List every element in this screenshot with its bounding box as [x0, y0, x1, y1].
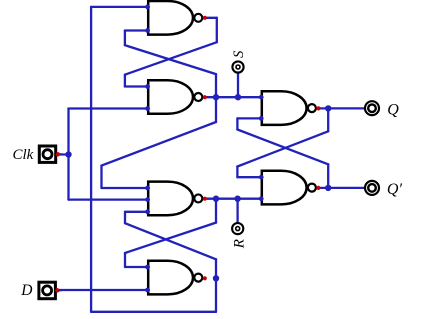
wire: into U4 upper input [125, 266, 148, 268]
wire: U2 output up [215, 74, 217, 97]
input pin dot 3 [145, 84, 150, 89]
input pin dot 4 [145, 106, 150, 111]
wire: into U6 upper input [237, 176, 261, 178]
wire: up to U5 lower input level [236, 118, 238, 129]
wire: S net horizontal U2 out to U5 input [207, 96, 262, 98]
NAND gate U3 [148, 182, 202, 216]
wire: Clk stub to junction [61, 153, 69, 155]
wire: up to U3 bottom input level [124, 212, 126, 223]
wire: into U3 top input [102, 187, 149, 189]
svg-text:Clk: Clk [13, 147, 34, 163]
wire: U1 output down [216, 18, 218, 42]
Clk pin stub (red) [60, 153, 62, 155]
junction Qbar node [325, 185, 331, 191]
wire: into U3 bottom input [125, 211, 148, 213]
wire: U4 output down [215, 278, 217, 312]
input pin dot 5 [145, 186, 150, 191]
input pin dot 1 [145, 5, 150, 10]
wire: Clk to gate U2 lower input [69, 107, 149, 109]
wire: U6 out diagonal to U5 [237, 130, 328, 165]
NAND gate U5 [262, 91, 316, 125]
D input terminal [39, 282, 56, 299]
NAND gate U6 [262, 171, 316, 205]
S terminal [232, 61, 243, 72]
wire: down to U6 upper input level [236, 167, 238, 178]
junction S terminal tap [235, 94, 241, 100]
junction Q node [325, 105, 331, 111]
input pin dot 10 [259, 95, 264, 100]
junction U4 output node [213, 275, 219, 281]
Q output terminal [365, 101, 379, 115]
D pin stub (red) [59, 289, 61, 291]
wire: U6 output to Qbar [320, 187, 365, 189]
svg-text:S: S [231, 50, 247, 58]
wire: U2 out down [215, 97, 217, 122]
svg-text:Q′: Q′ [387, 181, 403, 198]
wire: U4 output up [215, 259, 217, 278]
R terminal [232, 223, 243, 234]
output pin dot U1 (red) [203, 16, 207, 20]
wire: down to U3 top input level [100, 166, 102, 188]
input pin dot 11 [259, 116, 264, 121]
wire: into U1 lower input [125, 29, 148, 31]
wire: down to U2 upper input level [124, 75, 126, 87]
svg-text:Q: Q [387, 102, 399, 119]
wire: feedback left vertical U4 out to U1 input [90, 7, 92, 312]
wire: down to U4 upper input level [124, 253, 126, 267]
wire: S terminal drop [237, 73, 239, 98]
wire: U1 out diagonal to U2 [125, 42, 217, 74]
wire: feedback into U1 upper input [91, 6, 148, 8]
input pin dot 8 [145, 265, 150, 270]
wire: U1 output right [207, 17, 217, 19]
input pin dot 2 [145, 28, 150, 33]
wire: U5 out down [327, 108, 329, 131]
junction S node at U2 out [213, 94, 219, 100]
wire: feedback bottom horizontal [91, 311, 216, 313]
NAND gate U1 [148, 1, 202, 35]
wire: up to U1 lower input level [124, 31, 126, 46]
wire: into U5 lower input [237, 117, 261, 119]
wire: R net horizontal U3 out to U6 input [207, 198, 262, 200]
wire: U5 output to Q [320, 107, 365, 109]
wire: R terminal riser [236, 199, 238, 223]
wire: D input to gate U4 lower input [60, 289, 149, 291]
NAND gate U2 [148, 80, 202, 114]
Qbar output terminal [365, 181, 379, 195]
wire: U3 out diagonal to U4 [125, 223, 216, 253]
wire: U2 out diagonal to U3 [102, 122, 217, 166]
svg-text:D: D [20, 282, 32, 299]
wire: U4 out diagonal to U3 [125, 223, 216, 259]
input pin dot 13 [259, 196, 264, 201]
junction R terminal tap [234, 196, 240, 202]
svg-text:R: R [231, 239, 247, 249]
wire: U3 output down [215, 199, 217, 223]
NAND gate U4 [148, 261, 202, 295]
output pin dot U3 (red) [203, 197, 207, 201]
output pin dot U4 (red) [203, 276, 207, 280]
wire: into U2 upper input [125, 85, 148, 87]
output pin dot U6 (red) [316, 186, 320, 190]
wire: U2 out diagonal to U1 [125, 45, 216, 74]
output pin dot U2 (red) [203, 95, 207, 99]
output pin dot U5 (red) [316, 106, 320, 110]
wire: U6 out up [327, 164, 329, 188]
wire: U5 out diagonal to U6 [237, 131, 328, 166]
input pin dot 7 [145, 209, 150, 214]
input pin dot 9 [145, 288, 150, 293]
wire: Clk to gate U3 middle input [69, 198, 149, 200]
input pin dot 6 [145, 197, 150, 202]
junction R node at U3 out [213, 196, 219, 202]
input pin dot 12 [259, 175, 264, 180]
Clk input terminal [39, 146, 55, 162]
junction Clk node [65, 151, 71, 157]
wire: Clk vertical bus [67, 109, 69, 200]
